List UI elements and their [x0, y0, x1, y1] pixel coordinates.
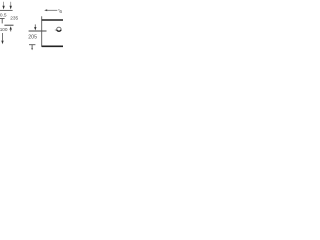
hole leader dash — [55, 29, 57, 31]
dimension line center — [29, 30, 47, 32]
svg-text:100: 100 — [0, 27, 8, 32]
dimension arrow down right (lead width) — [10, 2, 12, 10]
dimension line mid-left — [4, 24, 13, 26]
svg-text:205: 205 — [28, 34, 37, 40]
dimension arrow down left (lead width) — [2, 2, 4, 10]
svg-text:235: 235 — [10, 15, 18, 21]
mounting hole — [57, 27, 61, 31]
dimension arrow down lower-left — [1, 33, 3, 44]
value label top-right — [58, 9, 59, 10]
svg-text:0.5: 0.5 — [0, 13, 7, 19]
dimension tick T left — [0, 19, 5, 24]
dimension line top-right with left arrow — [44, 9, 57, 11]
dimension tick T bottom — [29, 45, 35, 51]
dimension arrow up — [10, 26, 12, 31]
dimension line top-left — [0, 9, 13, 11]
package body outline — [42, 16, 63, 47]
dimension arrow down center — [34, 24, 36, 30]
svg-text:6: 6 — [59, 9, 62, 15]
